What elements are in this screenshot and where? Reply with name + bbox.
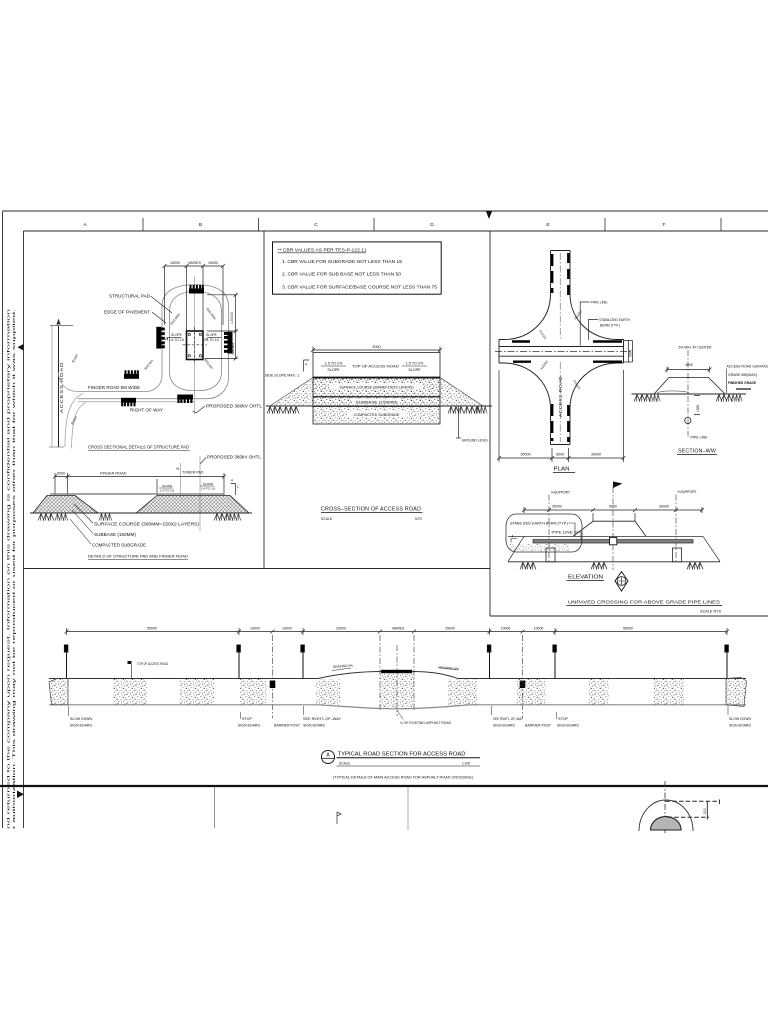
svg-text:STRUCTURAL PAD: STRUCTURAL PAD xyxy=(109,294,150,299)
svg-text:PIPE LINE: PIPE LINE xyxy=(691,436,708,440)
svg-text:ACCESS ROAD: ACCESS ROAD xyxy=(558,376,563,417)
svg-text:STABILIZED EARTH: STABILIZED EARTH xyxy=(599,318,630,322)
svg-text:R15m: R15m xyxy=(71,353,79,363)
svg-text:R15.00m: R15.00m xyxy=(205,307,217,320)
svg-text:GRADE 650(MAX): GRADE 650(MAX) xyxy=(728,373,757,377)
svg-text:SLOPE: SLOPE xyxy=(327,368,340,372)
svg-text:A: A xyxy=(83,222,87,228)
svg-text:E: E xyxy=(546,222,549,228)
svg-text:–.–: –.– xyxy=(325,760,331,765)
svg-text:1:4 TO 1:6: 1:4 TO 1:6 xyxy=(160,489,175,493)
svg-text:SLOPE: SLOPE xyxy=(162,484,172,488)
svg-text:r authorization. This drawing: r authorization. This drawing may not be… xyxy=(11,309,16,829)
svg-text:BERM (TYP.): BERM (TYP.) xyxy=(600,324,620,328)
svg-text:5000: 5000 xyxy=(609,505,617,509)
svg-text:30000: 30000 xyxy=(659,505,669,509)
svg-text:4: 4 xyxy=(231,479,233,483)
svg-text:25000: 25000 xyxy=(445,627,455,631)
svg-text:FINGER ROAD: FINGER ROAD xyxy=(100,472,127,476)
svg-text:VARIES: VARIES xyxy=(188,261,202,265)
svg-text:RIGHT OF WAY: RIGHT OF WAY xyxy=(130,408,163,413)
svg-text:SUBBASE (150MM): SUBBASE (150MM) xyxy=(94,532,137,537)
svg-text:25000: 25000 xyxy=(336,627,346,631)
svg-text:STOP: STOP xyxy=(242,717,253,721)
svg-text:SURFACE COURSE (300MM=150X2 LA: SURFACE COURSE (300MM=150X2 LAYERS) xyxy=(340,386,415,390)
svg-text:A: A xyxy=(326,753,330,759)
svg-text:R10000: R10000 xyxy=(574,309,583,320)
svg-text:BARRIER POST: BARRIER POST xyxy=(525,724,551,728)
svg-text:SIGN BOARD: SIGN BOARD xyxy=(557,724,580,728)
svg-text:R15m: R15m xyxy=(70,415,78,425)
svg-text:TYPICAL ROAD SECTION FOR ACCES: TYPICAL ROAD SECTION FOR ACCESS ROAD xyxy=(338,752,466,758)
svg-text:4: 4 xyxy=(305,363,307,367)
svg-text:PIPE LINE: PIPE LINE xyxy=(552,531,574,535)
svg-text:DETAILS OF STRUCTURE PAD AND F: DETAILS OF STRUCTURE PAD AND FINGER ROAD xyxy=(88,554,188,559)
svg-text:15000: 15000 xyxy=(170,261,180,265)
svg-text:TOP OF ACCESS ROAD: TOP OF ACCESS ROAD xyxy=(137,662,169,666)
svg-text:℅: ℅ xyxy=(176,467,180,471)
svg-text:R10000: R10000 xyxy=(540,359,549,370)
svg-text:FINISHED GRADE: FINISHED GRADE xyxy=(728,381,757,385)
svg-text:GROUND LEVEL: GROUND LEVEL xyxy=(462,439,489,443)
svg-text:PLAN: PLAN xyxy=(554,467,570,473)
svg-text:SLOW DOWN: SLOW DOWN xyxy=(729,717,752,721)
svg-text:10000: 10000 xyxy=(534,627,544,631)
svg-text:5% MIN. AT CENTER: 5% MIN. AT CENTER xyxy=(679,346,712,350)
svg-text:1: 1 xyxy=(237,485,239,489)
svg-text:R10000: R10000 xyxy=(538,329,547,340)
svg-text:ELEVATION: ELEVATION xyxy=(568,575,603,581)
svg-text:SIGN BOARD: SIGN BOARD xyxy=(493,724,516,728)
svg-text:PIPE LINE: PIPE LINE xyxy=(591,300,608,305)
svg-text:SLOPE: SLOPE xyxy=(171,333,182,337)
svg-text:10000: 10000 xyxy=(250,627,260,631)
svg-text:1. CBR VALUE FOR SUBGRADE NOT: 1. CBR VALUE FOR SUBGRADE NOT LESS THAN … xyxy=(282,259,403,264)
svg-text:30000: 30000 xyxy=(521,453,531,457)
svg-text:EDGE OF PAVEMENT: EDGE OF PAVEMENT xyxy=(104,310,151,315)
svg-text:SIDE SLOPE MAX. 1:: SIDE SLOPE MAX. 1: xyxy=(265,374,300,378)
svg-text:SLOPE: SLOPE xyxy=(203,482,213,486)
svg-text:NTS: NTS xyxy=(415,517,423,521)
svg-text:℅SUPPORT: ℅SUPPORT xyxy=(551,491,571,495)
svg-text:SIGN BOARD: SIGN BOARD xyxy=(729,724,752,728)
svg-text:5000: 5000 xyxy=(57,472,65,476)
svg-text:R15.00m: R15.00m xyxy=(170,312,182,325)
svg-text:4: 4 xyxy=(512,535,514,539)
svg-text:5000: 5000 xyxy=(373,345,381,349)
svg-text:** CBR VALUES AS PER TES-P-122: ** CBR VALUES AS PER TES-P-122.11 xyxy=(278,247,368,252)
svg-text:F: F xyxy=(663,222,666,228)
svg-text:TOP OF ACCESS ROAD: TOP OF ACCESS ROAD xyxy=(352,365,399,369)
svg-text:SECTION–WW: SECTION–WW xyxy=(678,449,716,455)
svg-text:R10000: R10000 xyxy=(572,379,581,390)
svg-text:SLOPE: SLOPE xyxy=(206,333,217,337)
svg-text:1.50000: 1.50000 xyxy=(230,312,234,324)
svg-text:CROSS–SECTION OF ACCESS ROAD: CROSS–SECTION OF ACCESS ROAD xyxy=(321,507,421,513)
svg-text:ACCESS ROAD: ACCESS ROAD xyxy=(59,362,64,413)
svg-text:R15.0m: R15.0m xyxy=(203,358,214,370)
svg-text:SCALE: SCALE xyxy=(339,762,351,766)
svg-text:1:4 TO 1:6: 1:4 TO 1:6 xyxy=(201,487,216,491)
svg-text:℅SUPPORT: ℅SUPPORT xyxy=(678,490,698,494)
svg-text:B: B xyxy=(199,222,202,228)
svg-text:15000: 15000 xyxy=(208,261,218,265)
svg-text:3. CBR VALUE FOR SURFACE/BASE: 3. CBR VALUE FOR SURFACE/BASE COURSE NOT… xyxy=(282,284,438,289)
svg-text:55000: 55000 xyxy=(147,627,157,631)
svg-text:30000: 30000 xyxy=(591,453,601,457)
svg-text:SEE RIGHT–OF–WAY: SEE RIGHT–OF–WAY xyxy=(303,717,342,721)
svg-text:SEE RIGHT–OF–WAY: SEE RIGHT–OF–WAY xyxy=(493,717,524,721)
svg-text:1:4 TO 1:6: 1:4 TO 1:6 xyxy=(169,338,184,342)
svg-text:D: D xyxy=(430,222,434,228)
svg-text:SIGN BOARD: SIGN BOARD xyxy=(238,724,261,728)
svg-text:ACCESS ROAD SURFACE: ACCESS ROAD SURFACE xyxy=(727,365,768,369)
svg-text:PROPOSED 380kV OHTL: PROPOSED 380kV OHTL xyxy=(207,455,262,460)
svg-text:FINGER ROAD 5M WIDE: FINGER ROAD 5M WIDE xyxy=(88,385,140,390)
svg-text:UNPAVED CROSSING FOR ABOVE GRA: UNPAVED CROSSING FOR ABOVE GRADE PIPE LI… xyxy=(568,600,720,605)
svg-text:CROSS SECTIONAL DETAILS OF STR: CROSS SECTIONAL DETAILS OF STRUCTURE PAD xyxy=(88,445,189,450)
svg-text:30000: 30000 xyxy=(552,505,562,509)
svg-text:nd returned to the company upo: nd returned to the company upon request.… xyxy=(6,309,11,829)
svg-text:500: 500 xyxy=(703,808,707,814)
svg-text:COMPACTED SUBGRADE: COMPACTED SUBGRADE xyxy=(92,543,146,548)
svg-text:COMPACTED SUBGRADE: COMPACTED SUBGRADE xyxy=(354,413,400,417)
svg-text:STOP: STOP xyxy=(558,717,569,721)
svg-text:55000: 55000 xyxy=(623,627,633,631)
svg-text:1050: 1050 xyxy=(696,404,700,412)
svg-text:2. CBR VALUE FOR SUB BASE NOT: 2. CBR VALUE FOR SUB BASE NOT LESS THAN … xyxy=(282,271,402,276)
svg-text:STABILIZED EARTH BERM (TYP.): STABILIZED EARTH BERM (TYP.) xyxy=(510,522,568,526)
svg-text:TOWER PAD: TOWER PAD xyxy=(182,471,204,475)
svg-text:SUBBASE (150MM): SUBBASE (150MM) xyxy=(356,401,399,405)
svg-text:BARRIER POST: BARRIER POST xyxy=(274,724,300,728)
svg-text:℅ OF EXISTING ASPHALT ROAD: ℅ OF EXISTING ASPHALT ROAD xyxy=(400,721,452,725)
svg-text:R15.0m: R15.0m xyxy=(144,359,155,371)
svg-text:1.5 TO 2%: 1.5 TO 2% xyxy=(406,362,424,366)
svg-text:10000: 10000 xyxy=(501,627,511,631)
svg-text:5000: 5000 xyxy=(629,349,633,357)
svg-text:C: C xyxy=(314,222,318,228)
svg-text:1:4 TO 1:6: 1:4 TO 1:6 xyxy=(204,338,219,342)
svg-text:SLOPE: SLOPE xyxy=(408,368,421,372)
svg-text:3000: 3000 xyxy=(685,363,693,367)
svg-text:(TYPICAL DETAILS OF MAIN ACCES: (TYPICAL DETAILS OF MAIN ACCESS ROAD FOR… xyxy=(333,776,473,780)
svg-text:5000: 5000 xyxy=(556,453,564,457)
svg-text:SIGN BOARD: SIGN BOARD xyxy=(303,724,326,728)
svg-text:SCALE: SCALE xyxy=(321,517,333,521)
svg-text:10000: 10000 xyxy=(282,627,292,631)
svg-text:PROPOSED 380kV OHTL: PROPOSED 380kV OHTL xyxy=(206,404,263,409)
svg-text:SURFACE COURSE (300MM=150X2 LA: SURFACE COURSE (300MM=150X2 LAYERS) xyxy=(94,522,200,527)
svg-text:1:200: 1:200 xyxy=(462,762,470,766)
svg-text:SLOW DOWN: SLOW DOWN xyxy=(70,717,93,721)
svg-text:1.5 TO 2%: 1.5 TO 2% xyxy=(325,362,343,366)
svg-text:VARIES: VARIES xyxy=(392,627,405,631)
svg-text:SIGN BOARD: SIGN BOARD xyxy=(70,724,93,728)
svg-text:SCALE NTS: SCALE NTS xyxy=(700,610,722,614)
